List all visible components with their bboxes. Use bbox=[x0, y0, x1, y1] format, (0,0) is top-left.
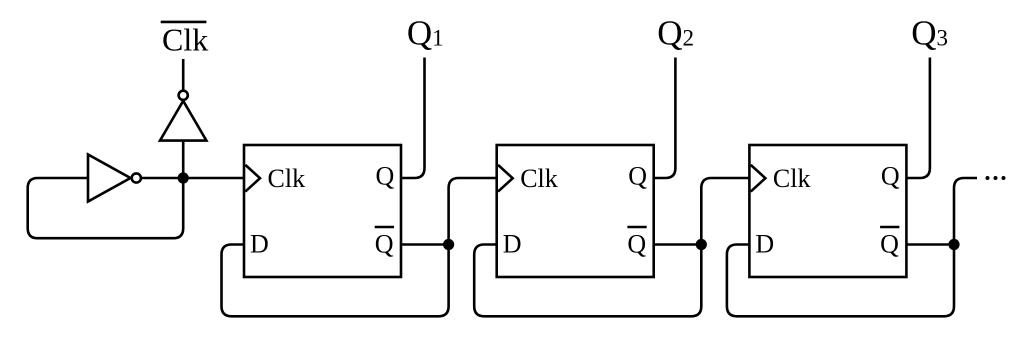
svg-text:Clk: Clk bbox=[773, 164, 811, 193]
svg-text:Q: Q bbox=[375, 230, 394, 259]
svg-text:Q1: Q1 bbox=[407, 13, 444, 52]
svg-text:Q: Q bbox=[628, 161, 647, 190]
svg-text:Clk: Clk bbox=[162, 21, 208, 57]
svg-text:Q: Q bbox=[376, 161, 395, 190]
svg-text:D: D bbox=[250, 230, 269, 259]
svg-text:D: D bbox=[503, 230, 522, 259]
svg-text:D: D bbox=[755, 230, 774, 259]
svg-text:Q: Q bbox=[880, 230, 899, 259]
svg-text:Q3: Q3 bbox=[911, 13, 948, 52]
svg-text:Q: Q bbox=[881, 161, 900, 190]
svg-text:Q2: Q2 bbox=[657, 13, 694, 52]
svg-text:Clk: Clk bbox=[520, 164, 558, 193]
svg-text:Clk: Clk bbox=[268, 164, 306, 193]
svg-text:Q: Q bbox=[627, 230, 646, 259]
